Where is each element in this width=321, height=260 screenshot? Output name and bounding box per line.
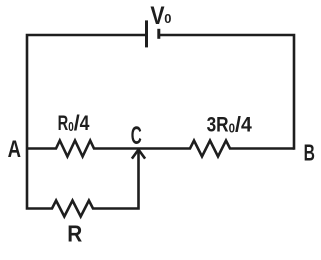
svg-text:B: B	[304, 140, 315, 166]
svg-text:V: V	[150, 2, 164, 30]
svg-text:C: C	[131, 122, 142, 150]
svg-text:R: R	[67, 221, 82, 247]
svg-text:0: 0	[164, 11, 171, 26]
svg-text:A: A	[8, 136, 22, 163]
svg-text:R0/4: R0/4	[58, 111, 90, 135]
